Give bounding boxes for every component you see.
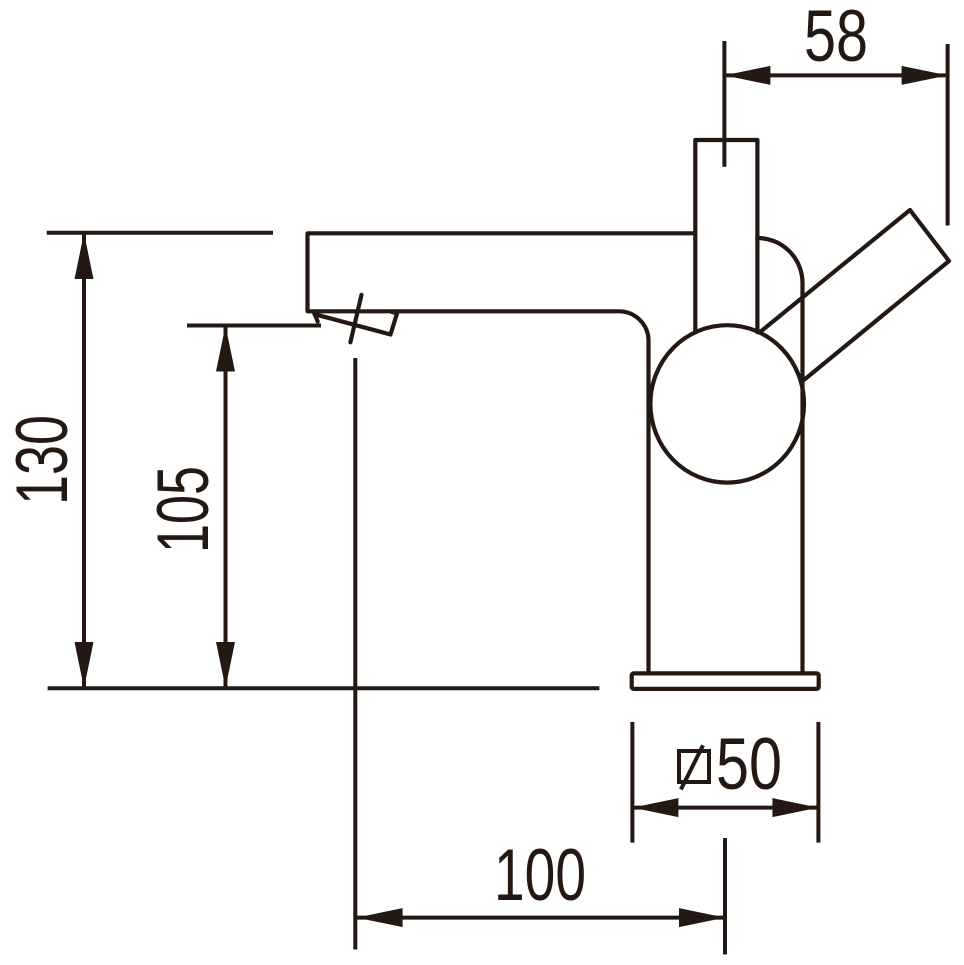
svg-text:100: 100 bbox=[494, 835, 586, 916]
svg-text:50: 50 bbox=[716, 724, 782, 805]
svg-text:105: 105 bbox=[143, 466, 224, 553]
svg-text:130: 130 bbox=[2, 415, 83, 505]
svg-text:58: 58 bbox=[804, 0, 868, 77]
